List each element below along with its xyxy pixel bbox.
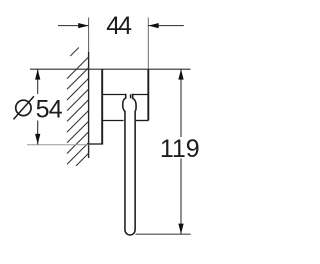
dimension Ø54 — [14, 69, 63, 144]
svg-text:54: 54 — [36, 96, 63, 124]
44 right extension line — [147, 18, 149, 70]
arrow right-pointing — [78, 23, 88, 28]
label Ø (diameter symbol drawn as circle + slash) — [16, 100, 31, 115]
dim line left part — [58, 25, 89, 27]
ring pivot ball and ring tube (side view) — [123, 94, 136, 235]
dim line vertical lower — [37, 121, 39, 145]
arrow left-pointing — [148, 23, 158, 28]
dim line vertical upper — [37, 69, 39, 94]
dimension 119 — [136, 69, 200, 234]
body bottom line — [102, 120, 148, 122]
svg-text:44: 44 — [106, 12, 132, 40]
dim line right part — [148, 25, 184, 27]
wall hatching — [67, 48, 89, 166]
dim line vertical lower — [180, 159, 182, 235]
44 left extension line (above wall) — [88, 18, 90, 53]
arrow down — [178, 224, 183, 234]
wall line — [88, 52, 90, 158]
arrow up — [35, 69, 40, 79]
top edge line (body top + Ø54 top extension + 119 top extension) — [30, 68, 191, 70]
svg-text:119: 119 — [160, 135, 200, 163]
arrow up — [178, 69, 183, 79]
Ø54 bottom extension line — [27, 144, 89, 146]
body front edge — [147, 69, 149, 120]
plate bottom edge — [89, 143, 104, 145]
arrow down — [35, 134, 40, 144]
dim line vertical upper — [180, 69, 182, 137]
escutcheon plate front edge — [101, 69, 103, 144]
dimension 44 — [58, 12, 184, 40]
ring neck inner line — [130, 94, 132, 98]
bottom extension line — [136, 233, 191, 235]
body divider line — [102, 94, 148, 96]
